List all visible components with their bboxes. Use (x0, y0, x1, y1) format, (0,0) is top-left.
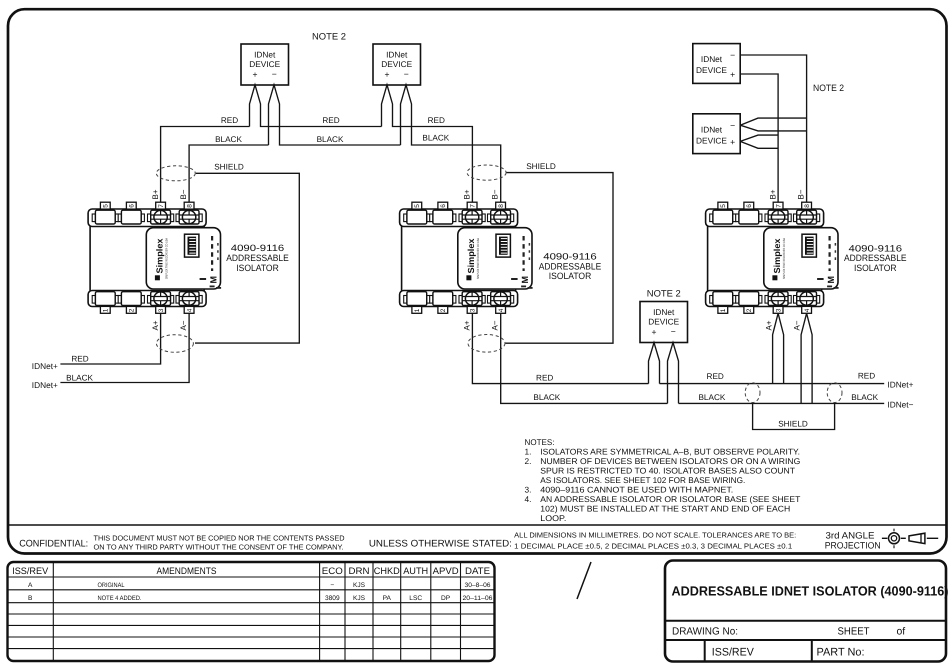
svg-text:+: + (730, 137, 735, 147)
svg-text:SHIELD: SHIELD (214, 162, 244, 171)
svg-text:+: + (730, 70, 735, 80)
svg-text:B+: B+ (769, 189, 778, 199)
svg-text:A+: A+ (151, 320, 160, 330)
svg-text:NOTE 2: NOTE 2 (312, 32, 346, 42)
svg-text:ISOLATOR: ISOLATOR (236, 263, 279, 273)
svg-text:IDNet: IDNet (386, 49, 408, 59)
svg-text:4.: 4. (525, 494, 532, 504)
svg-text:B: B (28, 595, 33, 602)
svg-text:A−: A− (179, 320, 188, 330)
svg-text:1.: 1. (525, 446, 532, 456)
svg-text:ADDRESSABLE IDNET ISOLATOR (40: ADDRESSABLE IDNET ISOLATOR (4090-9116) (672, 584, 949, 599)
svg-text:RED: RED (221, 116, 238, 125)
svg-text:3rd ANGLE: 3rd ANGLE (826, 531, 875, 541)
svg-text:ECO: ECO (322, 565, 343, 576)
svg-text:4090-9116: 4090-9116 (849, 243, 903, 253)
svg-text:IDNet: IDNet (254, 49, 276, 59)
svg-text:−: − (730, 120, 735, 130)
svg-text:BLACK: BLACK (66, 373, 93, 382)
svg-text:B−: B− (797, 189, 806, 199)
svg-text:A+: A+ (765, 320, 774, 330)
svg-text:ISS/REV: ISS/REV (712, 647, 755, 659)
svg-text:DEVICE: DEVICE (249, 59, 280, 69)
svg-text:+: + (252, 70, 257, 80)
svg-text:ADDRESSABLE: ADDRESSABLE (539, 261, 602, 271)
svg-text:B+: B+ (151, 189, 160, 199)
svg-text:UNLESS OTHERWISE STATED:: UNLESS OTHERWISE STATED: (369, 539, 512, 550)
svg-text:ISOLATOR: ISOLATOR (549, 271, 592, 281)
svg-text:RED: RED (536, 374, 553, 383)
svg-text:A: A (28, 582, 33, 589)
svg-text:CHKD: CHKD (374, 565, 400, 576)
svg-text:ISOLATOR: ISOLATOR (854, 263, 897, 273)
svg-text:BLACK: BLACK (317, 135, 344, 144)
svg-text:3.: 3. (525, 484, 532, 494)
svg-text:102) MUST BE INSTALLED AT THE: 102) MUST BE INSTALLED AT THE START AND … (540, 503, 790, 513)
svg-text:IDNet+: IDNet+ (887, 379, 913, 389)
svg-text:IDNet: IDNet (701, 54, 723, 64)
svg-text:A−: A− (491, 320, 500, 330)
svg-text:DP: DP (441, 595, 451, 602)
svg-text:THIS DOCUMENT MUST NOT BE COPI: THIS DOCUMENT MUST NOT BE COPIED NOR THE… (94, 534, 345, 543)
svg-text:SHIELD: SHIELD (526, 162, 556, 171)
svg-text:ADDRESSABLE: ADDRESSABLE (844, 253, 907, 263)
svg-text:2.: 2. (525, 456, 532, 466)
svg-text:−: − (330, 582, 334, 589)
svg-text:AS ISOLATORS. SEE SHEET 102 FO: AS ISOLATORS. SEE SHEET 102 FOR BASE WIR… (540, 475, 745, 485)
svg-text:RED: RED (71, 354, 88, 363)
svg-text:IDNet: IDNet (653, 307, 675, 317)
svg-text:RED: RED (707, 372, 724, 381)
svg-text:4090–9116 CANNOT BE USED WITH: 4090–9116 CANNOT BE USED WITH MAPNET. (540, 484, 733, 494)
svg-text:RED: RED (858, 372, 875, 381)
svg-text:PROJECTION: PROJECTION (825, 540, 881, 550)
svg-text:20–11–06: 20–11–06 (463, 595, 493, 602)
svg-text:30–8–06: 30–8–06 (465, 582, 491, 589)
svg-text:BLACK: BLACK (422, 134, 449, 143)
svg-text:B+: B+ (463, 189, 472, 199)
svg-text:4090-9116: 4090-9116 (231, 243, 285, 253)
svg-text:of: of (897, 626, 906, 637)
svg-text:ADDRESSABLE: ADDRESSABLE (226, 253, 289, 263)
svg-text:DEVICE: DEVICE (648, 316, 679, 326)
svg-text:−: − (404, 69, 409, 79)
svg-text:NOTES:: NOTES: (525, 437, 555, 447)
svg-text:NOTE 2: NOTE 2 (813, 83, 844, 93)
svg-text:KJS: KJS (353, 595, 366, 602)
svg-text:AN ADDRESSABLE ISOLATOR OR ISO: AN ADDRESSABLE ISOLATOR OR ISOLATOR BASE… (540, 494, 800, 504)
svg-text:+: + (651, 327, 656, 337)
svg-text:AMENDMENTS: AMENDMENTS (157, 565, 217, 576)
svg-text:−: − (671, 327, 676, 337)
svg-text:CONFIDENTIAL:: CONFIDENTIAL: (19, 539, 88, 550)
svg-text:AUTH: AUTH (403, 565, 428, 576)
svg-text:APVD: APVD (433, 565, 459, 576)
svg-text:BLACK: BLACK (698, 393, 725, 402)
svg-text:BLACK: BLACK (215, 135, 242, 144)
svg-text:−: − (272, 69, 277, 79)
svg-text:BLACK: BLACK (533, 393, 560, 402)
svg-text:RED: RED (322, 116, 339, 125)
svg-text:DATE: DATE (465, 565, 490, 576)
svg-text:ON TO ANY THIRD PARTY WITHOUT: ON TO ANY THIRD PARTY WITHOUT THE CONSEN… (94, 543, 344, 552)
svg-text:DRN: DRN (349, 565, 370, 576)
svg-text:NOTE 2: NOTE 2 (647, 289, 681, 299)
svg-text:B−: B− (179, 189, 188, 199)
svg-text:BLACK: BLACK (851, 393, 878, 402)
svg-text:ISOLATORS ARE SYMMETRICAL A–B,: ISOLATORS ARE SYMMETRICAL A–B, BUT OBSER… (540, 446, 800, 456)
svg-text:DEVICE: DEVICE (696, 135, 727, 145)
svg-text:DEVICE: DEVICE (696, 65, 727, 75)
svg-text:SPUR IS RESTRICTED TO 40. ISOL: SPUR IS RESTRICTED TO 40. ISOLATOR BASES… (540, 465, 795, 475)
svg-text:LOOP.: LOOP. (540, 513, 566, 523)
svg-text:DEVICE: DEVICE (381, 59, 412, 69)
svg-text:ISS/REV: ISS/REV (12, 565, 49, 576)
svg-text:ORIGINAL: ORIGINAL (98, 582, 125, 589)
svg-text:1 DECIMAL PLACE ±0.5, 2 DECIMA: 1 DECIMAL PLACE ±0.5, 2 DECIMAL PLACES ±… (514, 541, 792, 550)
svg-text:+: + (384, 70, 389, 80)
svg-text:PART No:: PART No: (817, 647, 865, 659)
svg-text:4090-9116: 4090-9116 (543, 251, 597, 261)
svg-text:IDNet: IDNet (701, 124, 723, 134)
svg-text:NUMBER OF DEVICES BETWEEN ISOL: NUMBER OF DEVICES BETWEEN ISOLATORS OR O… (540, 456, 800, 466)
svg-text:A−: A− (793, 320, 802, 330)
svg-text:LSC: LSC (409, 595, 422, 602)
svg-text:SHIELD: SHIELD (778, 420, 808, 429)
svg-text:SHEET: SHEET (838, 626, 871, 637)
svg-text:NOTE 4 ADDED.: NOTE 4 ADDED. (98, 595, 142, 602)
svg-text:B−: B− (491, 189, 500, 199)
svg-text:IDNet+: IDNet+ (32, 380, 58, 390)
svg-text:PA: PA (383, 595, 392, 602)
svg-text:IDNet+: IDNet+ (32, 361, 58, 371)
svg-text:−: − (730, 50, 735, 60)
svg-text:A+: A+ (463, 320, 472, 330)
svg-text:ALL DIMENSIONS IN MILLIMETRES.: ALL DIMENSIONS IN MILLIMETRES. DO NOT SC… (514, 530, 796, 539)
svg-text:IDNet−: IDNet− (887, 399, 913, 409)
svg-text:RED: RED (428, 116, 445, 125)
svg-text:DRAWING No:: DRAWING No: (672, 626, 738, 637)
svg-text:KJS: KJS (353, 582, 366, 589)
svg-text:3809: 3809 (325, 595, 340, 602)
